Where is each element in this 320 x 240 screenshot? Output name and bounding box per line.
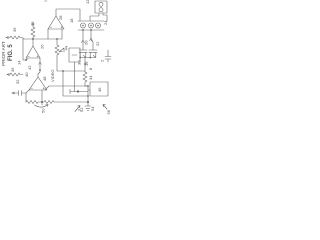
- input line node A: [24, 38, 62, 40]
- capacitor C1: [105, 50, 111, 62]
- svg-text:VIDEO: VIDEO: [50, 70, 55, 82]
- connector pin circle 2: [89, 23, 94, 28]
- svg-text:8: 8: [88, 67, 93, 70]
- svg-text:32: 32: [15, 79, 20, 84]
- pot wiper arrow: [59, 48, 64, 52]
- svg-text:56: 56: [106, 109, 111, 114]
- connector 24 top rail: [78, 20, 104, 22]
- resistor R36 (left input): [6, 36, 24, 39]
- svg-text:40: 40: [24, 72, 29, 77]
- wire U1 left corner down: [47, 29, 49, 39]
- op-amp U1 (top, pointing up): [48, 16, 64, 29]
- transistor Q1: [79, 49, 87, 51]
- wire top from op-amp U1 apex up and right to connector: [56, 9, 80, 21]
- wire connector pin1 down to Q1 drain: [82, 30, 84, 50]
- wire U3 minus input down to feedback node: [41, 90, 43, 102]
- transistor Q2: [89, 49, 97, 51]
- op-amp U2 (middle, pointing up): [26, 46, 40, 58]
- arrowhead on drain 1: [81, 40, 84, 43]
- box 46: [90, 82, 108, 96]
- svg-text:36: 36: [12, 27, 17, 32]
- svg-text:48: 48: [42, 76, 47, 81]
- arrow input terminal: [6, 37, 9, 39]
- wire transducer to connector right: [103, 13, 107, 21]
- bus vertical x88: [87, 86, 89, 103]
- svg-text:28: 28: [58, 15, 63, 20]
- svg-text:2: 2: [100, 59, 105, 62]
- stray mark top left: [45, 0, 48, 2]
- arrowhead on drain 2: [89, 38, 92, 41]
- junction y103: [87, 101, 88, 102]
- svg-text:PRIOR ART: PRIOR ART: [1, 41, 6, 66]
- transducer circle a: [99, 2, 103, 6]
- connector 24 bottom rail: [78, 29, 104, 31]
- bus resistor R34: [83, 72, 87, 86]
- wire pot bottom right along y71: [57, 70, 85, 71]
- svg-text:54: 54: [90, 106, 95, 111]
- resistor R38 top tick: [32, 23, 35, 25]
- stub with bar and dot to bus: [70, 89, 88, 93]
- wire U2 plus input to U3 output: [38, 58, 40, 77]
- rung bus to box 46: [88, 89, 90, 91]
- wire from box down across line y86: [74, 62, 76, 92]
- svg-text:14: 14: [17, 60, 22, 65]
- capacitor C2 with input arrow: [12, 89, 30, 96]
- wire Q1/Q2 sources joined: [80, 57, 96, 59]
- wire cap to resistor: [25, 93, 27, 102]
- wire U3 right corner to line y86: [45, 86, 88, 90]
- resistor R38 (vertical above line): [31, 24, 35, 39]
- svg-text:22: 22: [95, 41, 100, 46]
- wire transducer to connector left: [90, 13, 99, 21]
- op-amp U3 (bottom, pointing up): [29, 77, 47, 90]
- wire connector pin2 down to Q2 drain: [91, 30, 93, 50]
- svg-text:46: 46: [97, 87, 102, 92]
- transducer box 12: [95, 1, 107, 13]
- svg-text:12: 12: [85, 0, 90, 4]
- junction dots on bus: [87, 85, 88, 86]
- svg-text:24: 24: [103, 20, 108, 25]
- wire U1 right corner down: [61, 29, 63, 39]
- small box with contact: [69, 48, 80, 62]
- wire line y39 down to U2 minus input: [23, 39, 27, 60]
- svg-text:38: 38: [30, 21, 35, 26]
- wire down x63 to line y96: [63, 71, 88, 96]
- svg-text:52: 52: [79, 107, 84, 112]
- svg-text:20: 20: [84, 40, 89, 45]
- svg-text:34: 34: [88, 75, 93, 80]
- wire U2 output up: [32, 39, 34, 46]
- small symbol 56: [103, 104, 107, 109]
- wire source node down to R34: [84, 58, 86, 73]
- svg-text:26: 26: [40, 44, 45, 49]
- svg-text:30: 30: [77, 60, 82, 65]
- potentiometer R44 (vertical): [55, 39, 59, 70]
- transducer circle b: [99, 8, 103, 12]
- svg-text:18: 18: [69, 18, 74, 23]
- junction pot/line: [56, 38, 57, 39]
- svg-text:16: 16: [84, 61, 89, 66]
- svg-text:36: 36: [10, 67, 15, 72]
- wiper arc below node: [41, 102, 43, 105]
- svg-text:42: 42: [27, 65, 32, 70]
- svg-text:50: 50: [41, 108, 46, 113]
- ground at bus bottom: [85, 103, 91, 111]
- small symbol 52: [75, 106, 80, 112]
- resistor R32 (left lower input): [7, 73, 23, 76]
- connector pin circle 1: [81, 23, 86, 28]
- feedback resistor R50a: [26, 101, 42, 104]
- connector pin circle 3: [96, 23, 101, 28]
- feedback resistor R50b: [42, 101, 88, 104]
- svg-text:44: 44: [64, 45, 69, 50]
- svg-text:FIG. 5: FIG. 5: [8, 44, 14, 61]
